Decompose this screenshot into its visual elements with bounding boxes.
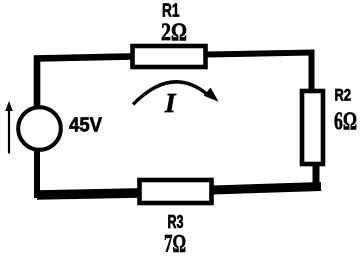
- voltage source V1 (circle): [18, 107, 61, 150]
- resistor R2 (right box): [302, 91, 323, 164]
- svg-text:R2: R2: [335, 86, 352, 105]
- resistor R1 (top box): [133, 46, 206, 67]
- svg-text:2Ω: 2Ω: [161, 19, 187, 46]
- wire top-left (from source top up and right to R1): [37, 57, 131, 108]
- wire bottom-left (from R3 left to corner, up to source bottom): [37, 193, 138, 195]
- svg-text:I: I: [164, 88, 177, 118]
- svg-text:7Ω: 7Ω: [164, 230, 186, 257]
- wire left-lower (source bottom to bottom-left corner): [34, 149, 40, 198]
- current direction arrow (curved arc): [133, 82, 219, 105]
- wire bottom-right (from corner left to R3): [213, 187, 321, 191]
- svg-text:R3: R3: [168, 212, 184, 232]
- resistor R3 (bottom box): [140, 180, 212, 203]
- svg-text:45V: 45V: [69, 115, 103, 137]
- svg-text:R1: R1: [162, 1, 180, 21]
- wire top-right (from R1 right to top-right corner, down to R2): [207, 53, 312, 92]
- source polarity arrow (up arrow at far left): [5, 101, 13, 154]
- svg-text:6Ω: 6Ω: [334, 108, 357, 135]
- wire right-lower (from R2 bottom down to bottom wire): [313, 164, 320, 187]
